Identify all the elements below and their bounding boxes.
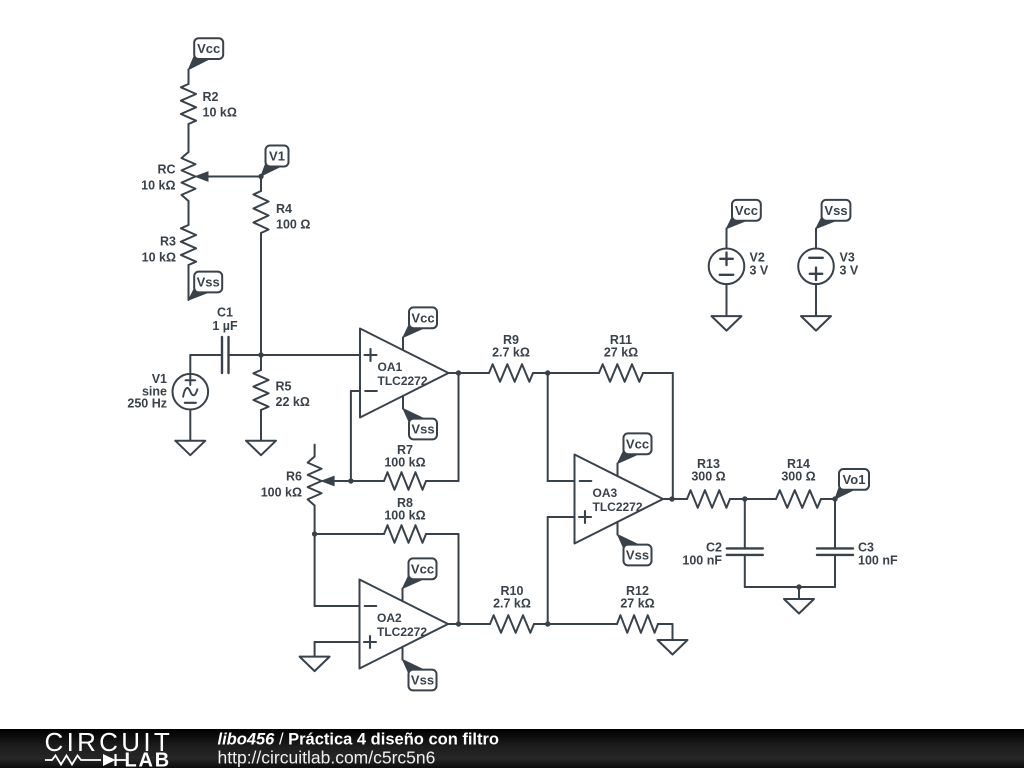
svg-text:R3: R3 — [160, 235, 176, 249]
svg-text:1 µF: 1 µF — [212, 319, 238, 333]
svg-text:R6: R6 — [286, 470, 302, 484]
svg-text:RC: RC — [157, 163, 175, 177]
svg-text:300 Ω: 300 Ω — [691, 470, 725, 484]
svg-text:LAB: LAB — [125, 750, 172, 768]
svg-text:Vcc: Vcc — [735, 203, 758, 218]
svg-text:100 nF: 100 nF — [682, 554, 722, 568]
svg-text:TLC2272: TLC2272 — [377, 625, 427, 639]
svg-text:OA1: OA1 — [378, 360, 403, 374]
svg-text:R4: R4 — [276, 202, 292, 216]
svg-text:100 kΩ: 100 kΩ — [261, 486, 302, 500]
svg-text:V2: V2 — [750, 251, 765, 265]
svg-text:10 kΩ: 10 kΩ — [142, 251, 176, 265]
svg-text:300 Ω: 300 Ω — [781, 470, 815, 484]
svg-text:100 nF: 100 nF — [858, 554, 898, 568]
svg-text:TLC2272: TLC2272 — [593, 500, 643, 514]
svg-text:Vss: Vss — [411, 422, 434, 437]
svg-text:3 V: 3 V — [750, 264, 769, 278]
svg-text:OA3: OA3 — [593, 486, 618, 500]
svg-text:http://circuitlab.com/c5rc5n6: http://circuitlab.com/c5rc5n6 — [218, 748, 436, 768]
svg-text:Vcc: Vcc — [411, 310, 434, 325]
svg-text:3 V: 3 V — [840, 264, 859, 278]
svg-text:R2: R2 — [203, 90, 219, 104]
svg-text:22 kΩ: 22 kΩ — [276, 395, 310, 409]
svg-text:libo456 / Práctica 4 diseño co: libo456 / Práctica 4 diseño con filtro — [218, 731, 500, 749]
svg-text:Vcc: Vcc — [626, 436, 649, 451]
svg-text:100 Ω: 100 Ω — [276, 218, 310, 232]
svg-text:TLC2272: TLC2272 — [378, 374, 428, 388]
svg-text:Vss: Vss — [626, 548, 649, 563]
svg-text:OA2: OA2 — [377, 611, 402, 625]
svg-text:10 kΩ: 10 kΩ — [141, 179, 175, 193]
svg-text:27 kΩ: 27 kΩ — [604, 346, 638, 360]
svg-text:R5: R5 — [276, 380, 292, 394]
svg-text:C3: C3 — [858, 541, 874, 555]
svg-text:V1: V1 — [269, 149, 285, 164]
svg-text:250 Hz: 250 Hz — [127, 397, 167, 411]
svg-text:27 kΩ: 27 kΩ — [620, 597, 654, 611]
svg-text:2.7 kΩ: 2.7 kΩ — [492, 346, 530, 360]
svg-text:2.7 kΩ: 2.7 kΩ — [493, 597, 531, 611]
svg-text:Vss: Vss — [824, 203, 847, 218]
svg-text:V3: V3 — [840, 251, 855, 265]
svg-text:Vcc: Vcc — [411, 561, 434, 576]
svg-text:100 kΩ: 100 kΩ — [384, 509, 425, 523]
svg-text:Vss: Vss — [411, 673, 434, 688]
svg-text:Vo1: Vo1 — [843, 472, 866, 487]
svg-text:10 kΩ: 10 kΩ — [203, 106, 237, 120]
svg-text:100 kΩ: 100 kΩ — [384, 456, 425, 470]
svg-text:Vcc: Vcc — [197, 41, 220, 56]
svg-text:C2: C2 — [706, 541, 722, 555]
svg-text:C1: C1 — [217, 306, 233, 320]
svg-text:Vss: Vss — [197, 275, 220, 290]
